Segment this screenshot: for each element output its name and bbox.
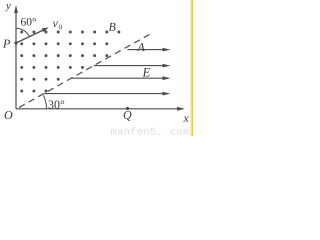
x axis xyxy=(16,108,180,110)
electric field label E xyxy=(142,68,150,77)
point Q xyxy=(126,107,129,110)
magnetic field label B xyxy=(109,23,116,31)
30 degree angle arc at O xyxy=(43,95,46,108)
y axis label xyxy=(5,4,11,11)
y axis xyxy=(15,10,17,109)
point P xyxy=(14,41,17,44)
30 degree label xyxy=(49,101,65,109)
magnetic field dot region xyxy=(20,31,120,93)
electric field lines E xyxy=(128,49,166,51)
initial velocity vector v0 xyxy=(16,29,46,43)
point A label xyxy=(137,43,145,51)
yellow highlight stripe xyxy=(189,0,193,136)
origin O label xyxy=(5,111,13,119)
x axis label xyxy=(183,116,188,122)
60 degree angle arc at P xyxy=(16,28,29,36)
60 degree label xyxy=(21,18,36,26)
dashed boundary line at 30 degrees xyxy=(19,33,152,108)
watermark manfen5.com xyxy=(111,127,189,134)
v0 label xyxy=(53,21,58,27)
